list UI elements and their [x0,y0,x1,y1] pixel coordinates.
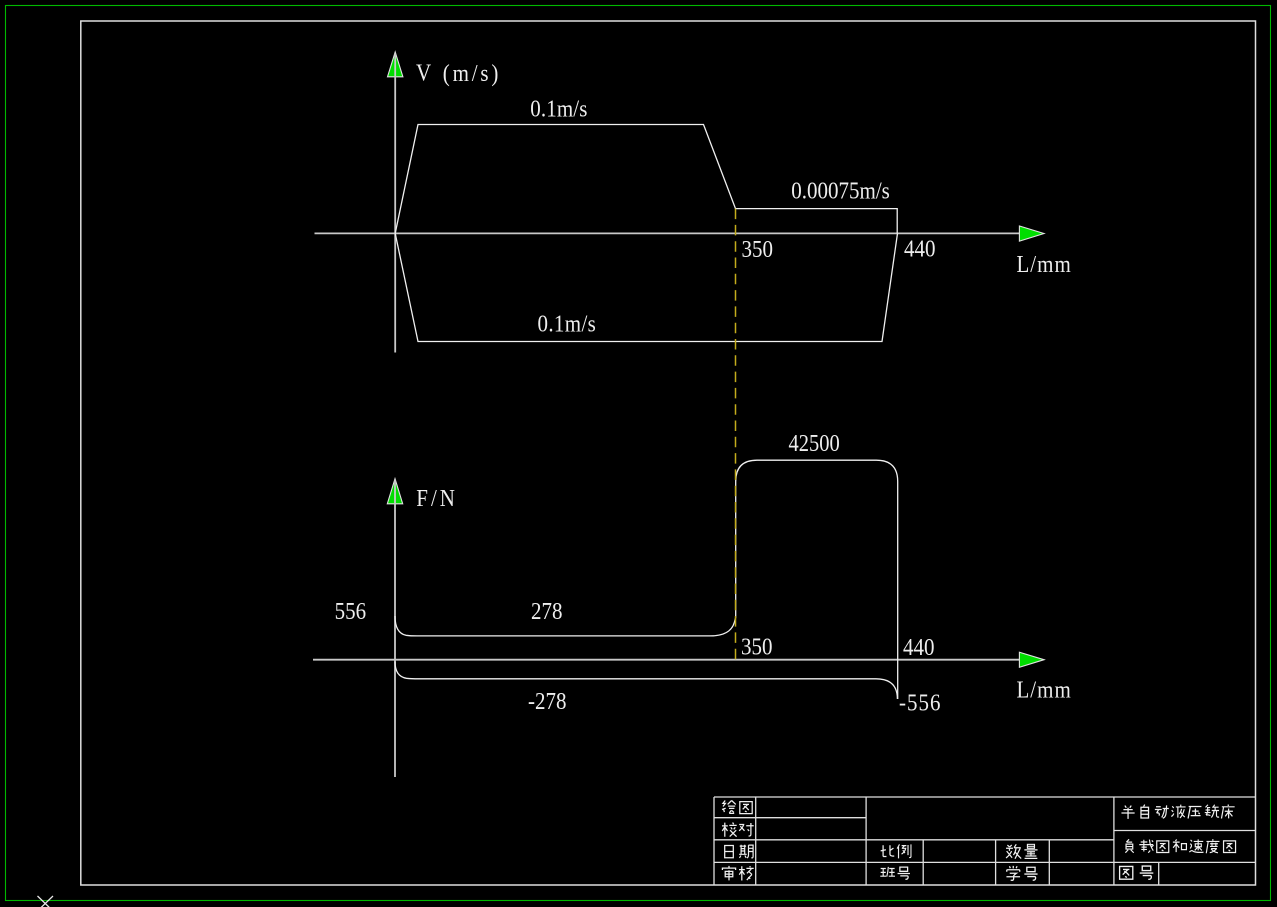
svg-text:V: V [416,59,432,86]
vertical after 数量/学号 [1048,840,1050,885]
vertical right section [1113,797,1115,885]
svg-text:0.1m/s: 0.1m/s [538,310,597,337]
F axis [394,480,396,777]
L axis arrow (top) [1019,226,1044,241]
divider under row2 [714,839,1114,841]
divider under title cell (right section) [1114,830,1256,832]
svg-text:440: 440 [903,634,934,661]
svg-text:-556: -556 [899,689,941,716]
svg-text:42500: 42500 [789,430,840,457]
corner cross mark bottom-left [38,896,54,907]
cell label 校对 [722,823,737,837]
force curve negative half [395,662,897,700]
force curve positive half [395,460,898,699]
vertical middle divider [865,797,867,885]
svg-text:278: 278 [531,598,562,625]
svg-text:(m/s): (m/s) [443,60,501,87]
title block outline left edge [713,797,715,885]
title text 负载图和速度图 [1125,839,1235,853]
svg-text:440: 440 [904,235,935,262]
L axis arrow (bottom) [1019,652,1044,667]
svg-text:0.00075m/s: 0.00075m/s [791,177,890,204]
svg-text:556: 556 [335,598,366,625]
velocity curve return stroke [395,233,897,341]
svg-text:-278: -278 [528,687,566,714]
cell label 日期 [725,846,734,858]
cell label 比例 [881,845,895,856]
L axis (bottom) [313,659,1020,661]
cell label 审核 [722,866,735,881]
svg-text:L/mm: L/mm [1017,676,1072,703]
cell label 绘图 [722,801,736,814]
title block top edge [714,796,1256,798]
vertical after 图号 [1158,862,1160,885]
svg-text:350: 350 [742,236,773,263]
cell label 学号 [1006,866,1020,880]
divider under row3 [714,861,1256,863]
velocity curve forward stroke [395,125,897,234]
vertical after label column [755,797,757,885]
svg-text:350: 350 [741,633,772,660]
svg-text:0.1m/s: 0.1m/s [530,95,587,122]
cell label 班号 [880,867,895,877]
vertical after 比例/班号 [922,840,924,885]
svg-text:F/N: F/N [416,485,458,512]
cell label 图号 [1120,866,1133,879]
V axis [394,54,396,353]
F axis arrow [387,479,402,504]
svg-text:L/mm: L/mm [1017,251,1072,278]
V axis arrow [388,52,403,77]
dashed reference line at 350 [735,209,737,660]
cell label 数量 [1006,844,1021,858]
divider under row1 (left section) [714,817,866,819]
vertical after blank (row3/4) [995,840,997,885]
title text 半自动液压铣床 [1121,804,1234,818]
L axis (top) [315,232,1020,234]
